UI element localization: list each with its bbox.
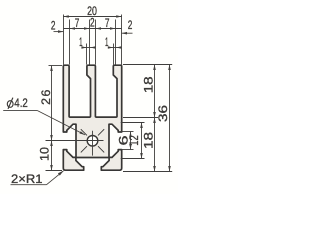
extension line: block top step, right side — [123, 117, 158, 119]
svg-text:36: 36 — [156, 105, 170, 122]
extension line: right slot opening bottom (6) — [121, 149, 134, 151]
extension line: fin2 right edge — [95, 20, 97, 65]
center hole vertical centerline — [92, 131, 94, 156]
extension line: fin top level, left side — [49, 65, 63, 67]
svg-text:1: 1 — [79, 35, 82, 49]
extension line: profile top level, right side — [123, 64, 172, 66]
extension line: right slot cavity top (12) — [121, 122, 145, 124]
inner web diagonal SE — [98, 146, 104, 152]
dimension 1 (fin3 lip) line with outside arrows — [108, 46, 122, 49]
dimension 20 line with inside arrows — [63, 15, 121, 18]
dimension 10 vertical line with arrows (left) — [50, 141, 53, 171]
extension line: profile right edge above — [121, 15, 123, 65]
dimension row 2-7-2-7-2 line with arrows — [54, 27, 133, 34]
extension line: fin2 left edge — [89, 20, 91, 65]
center hole circle φ4.2 — [87, 136, 98, 147]
extension line: fin3 body left edge — [115, 20, 117, 65]
dimension 18 lower vertical line with arrows (right) — [153, 118, 156, 172]
svg-text:2: 2 — [51, 18, 56, 32]
svg-text:7: 7 — [75, 16, 80, 30]
extension line: fin3 lip left edge — [113, 44, 115, 65]
extension line: right slot opening top (6) — [121, 131, 134, 133]
extension line: block bottom, right side — [123, 171, 172, 173]
leader underline for φ4.2 — [3, 110, 37, 112]
leader line for φ4.2 with arrowhead at hole — [38, 111, 86, 135]
svg-text:2: 2 — [90, 16, 95, 30]
center hole horizontal centerline — [46, 140, 104, 142]
svg-text:18: 18 — [141, 132, 155, 149]
phi glyph of φ4.2 (circle with stem) — [7, 98, 13, 109]
leader underline for 2×R1 — [11, 184, 47, 186]
svg-text:12: 12 — [127, 135, 141, 146]
inner web diagonal NE — [98, 129, 104, 135]
extrusion profile body (filled cross-section) — [63, 65, 121, 170]
dimension 26 vertical line with arrows (left) — [50, 66, 53, 141]
svg-text:4.2: 4.2 — [14, 96, 28, 110]
dimension 36 vertical line with arrows (right) — [168, 65, 171, 172]
extension line: block bottom, left side — [46, 170, 63, 172]
svg-text:26: 26 — [39, 88, 53, 105]
extension line: fin2 lip left edge — [86, 44, 88, 65]
inner web diagonal NW — [81, 129, 87, 135]
svg-text:1: 1 — [105, 35, 108, 49]
extension line: right slot cavity bottom (12) — [121, 158, 145, 160]
svg-text:18: 18 — [141, 76, 155, 93]
dimension 18 upper vertical line with arrows (right) — [153, 65, 156, 118]
svg-text:10: 10 — [38, 147, 52, 161]
svg-text:2×R1: 2×R1 — [11, 172, 43, 186]
svg-text:2: 2 — [128, 18, 133, 32]
dimension 6 vertical line with arrows — [129, 132, 132, 150]
inner web diagonal SW — [81, 146, 87, 152]
extension line: profile left edge above — [63, 15, 65, 65]
leader line for 2×R1 with arrowhead at corner — [47, 171, 64, 185]
extension line: fin1 right edge — [69, 20, 71, 65]
svg-text:7: 7 — [105, 16, 110, 30]
dimension 12 vertical line with arrows — [140, 123, 143, 159]
dimension 1 (fin2 lip) line with outside arrows — [81, 46, 95, 49]
